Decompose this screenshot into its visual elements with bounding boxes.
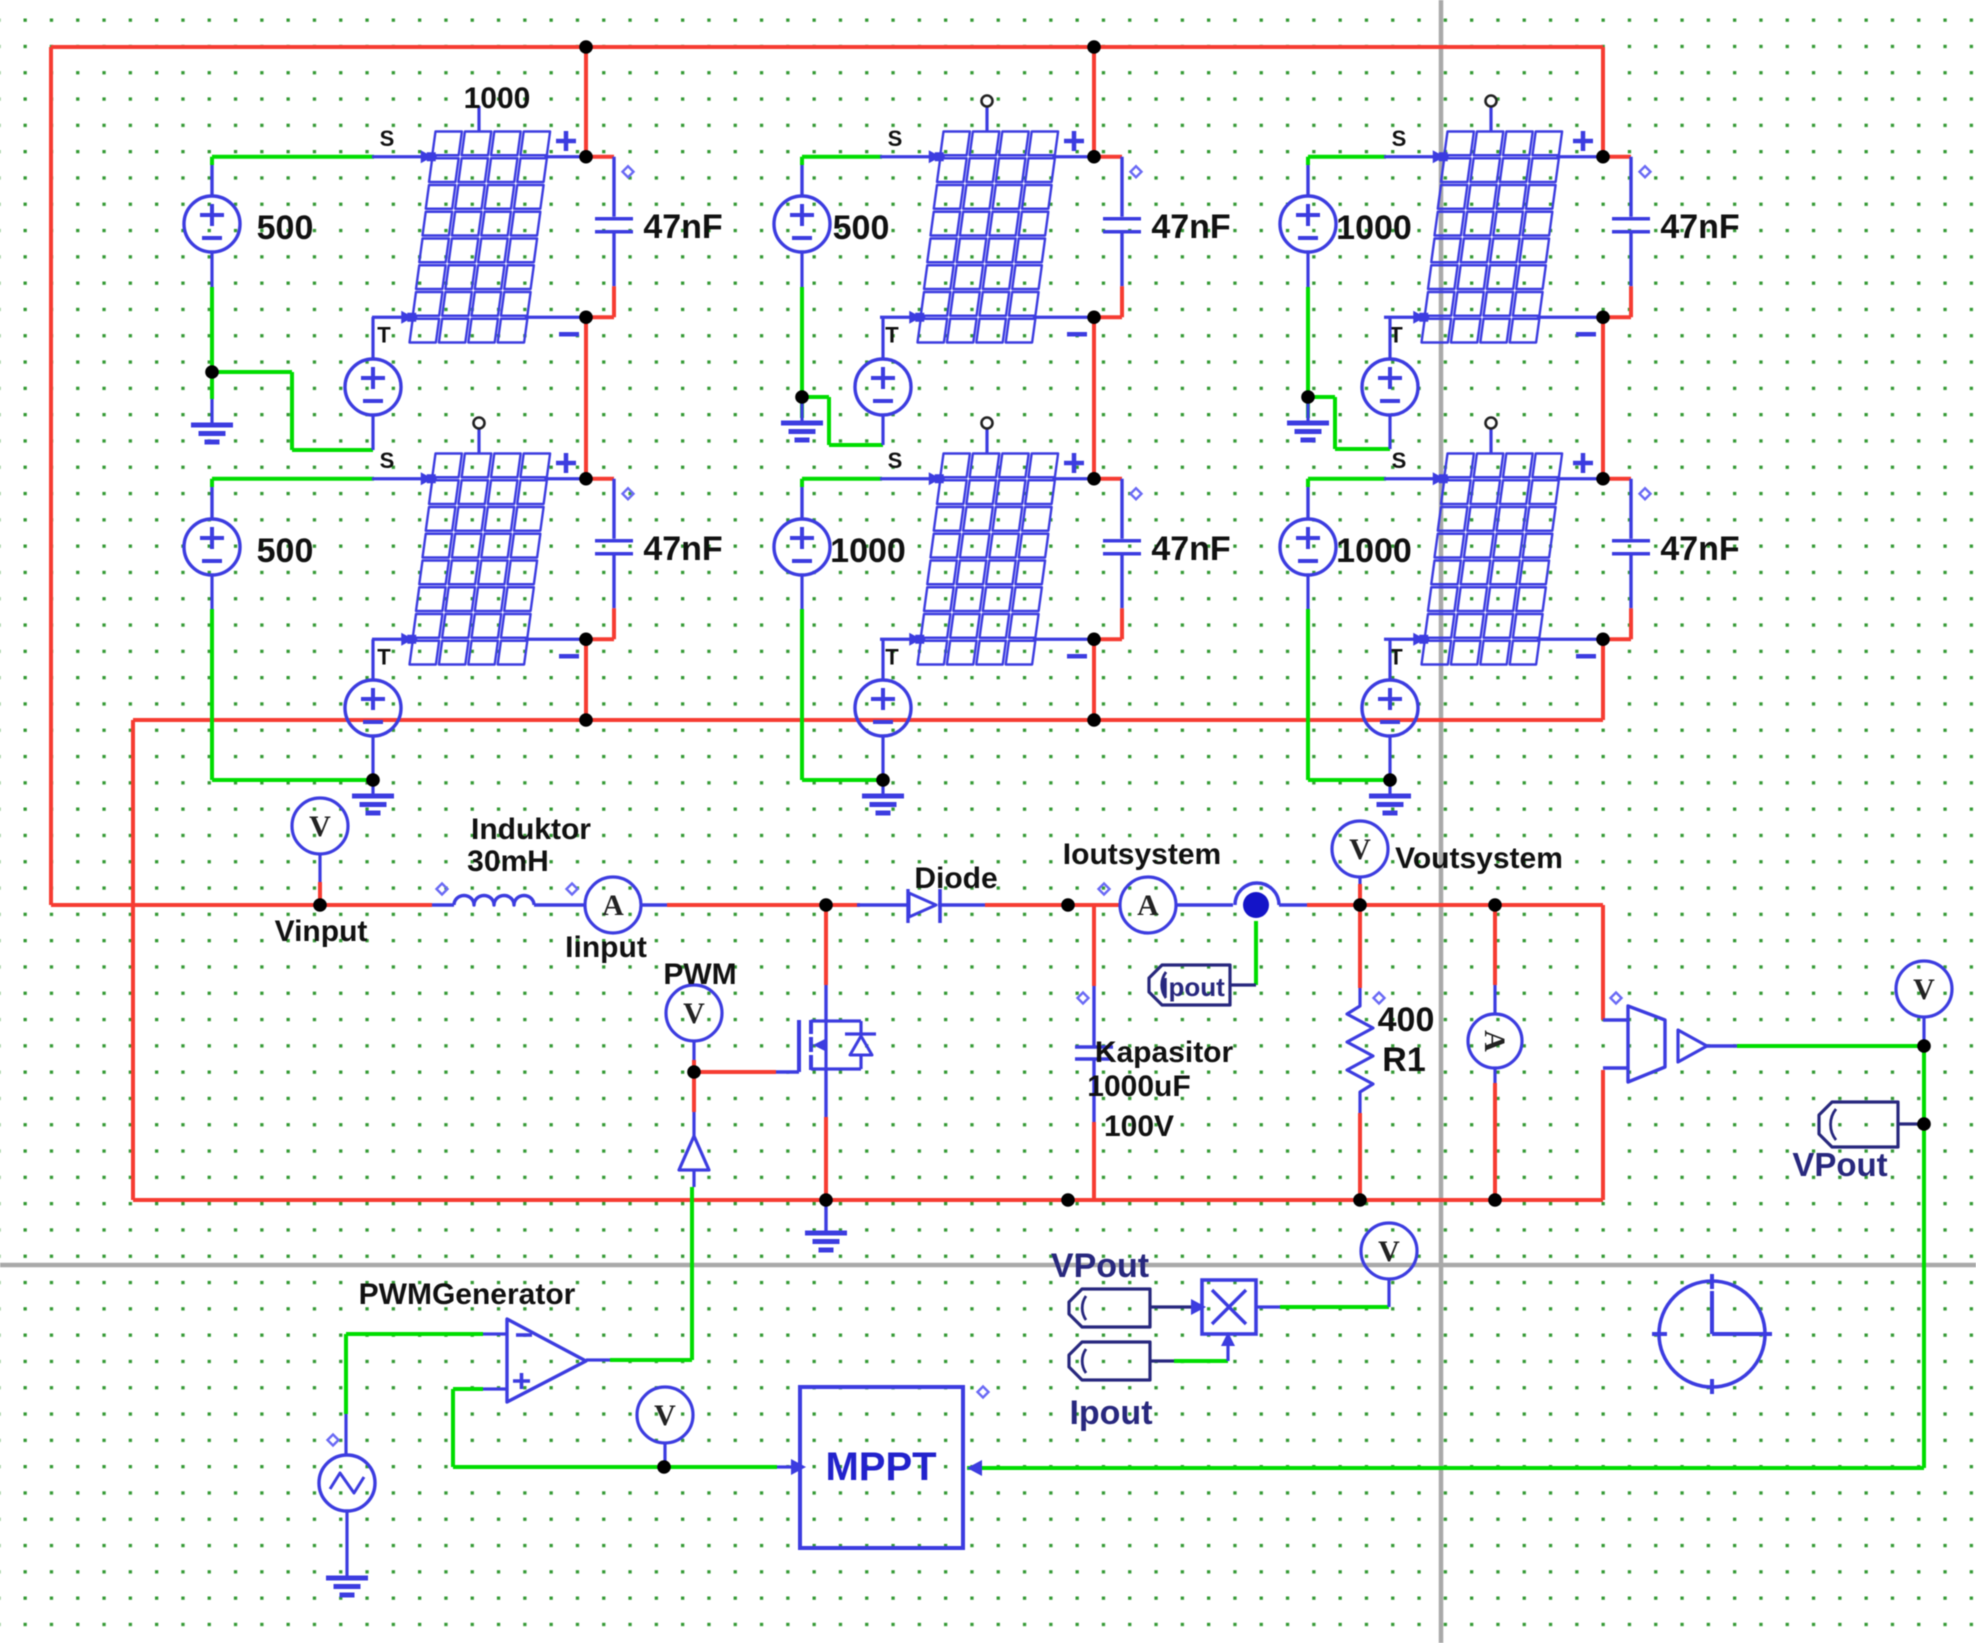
svg-text:1000: 1000 [830,532,906,570]
svg-text:V: V [1349,833,1371,866]
svg-text:500: 500 [257,532,314,570]
svg-text:1000: 1000 [1336,209,1412,247]
svg-text:VPout: VPout [1051,1247,1149,1285]
svg-text:1000uF: 1000uF [1087,1070,1190,1103]
svg-text:1000: 1000 [1336,532,1412,570]
svg-text:47nF: 47nF [643,208,722,246]
svg-text:S: S [888,126,903,151]
svg-text:V: V [683,997,705,1030]
svg-text:Voutsystem: Voutsystem [1395,842,1563,875]
svg-text:47nF: 47nF [1151,530,1230,568]
svg-text:Vinput: Vinput [275,915,368,948]
svg-text:A: A [602,889,624,922]
svg-text:30mH: 30mH [467,845,549,878]
svg-text:500: 500 [257,209,314,247]
svg-text:500: 500 [833,209,890,247]
svg-text:Ipout: Ipout [1069,1394,1152,1432]
svg-text:A: A [1137,889,1159,922]
svg-text:S: S [380,448,395,473]
svg-text:100V: 100V [1104,1110,1174,1143]
svg-text:V: V [654,1399,676,1432]
svg-text:R1: R1 [1382,1041,1425,1079]
svg-text:PWM: PWM [663,958,736,991]
svg-text:V: V [1913,973,1935,1006]
svg-text:A: A [1478,1030,1511,1052]
svg-text:Ioutsystem: Ioutsystem [1063,838,1221,871]
svg-text:400: 400 [1378,1001,1435,1039]
svg-text:V: V [1378,1235,1400,1268]
svg-text:S: S [888,448,903,473]
svg-text:Iinput: Iinput [565,931,647,964]
svg-text:47nF: 47nF [1660,208,1739,246]
svg-text:Induktor: Induktor [471,813,591,846]
svg-text:S: S [1392,448,1407,473]
svg-text:T: T [885,644,899,669]
svg-text:T: T [377,644,391,669]
svg-text:V: V [309,810,331,843]
svg-text:T: T [377,322,391,347]
svg-text:Ipout: Ipout [1161,972,1225,1002]
svg-text:1000: 1000 [464,82,531,115]
svg-text:PWMGenerator: PWMGenerator [359,1278,576,1311]
svg-text:T: T [885,322,899,347]
svg-text:47nF: 47nF [643,530,722,568]
svg-text:Diode: Diode [914,862,997,895]
svg-text:MPPT: MPPT [825,1445,936,1489]
svg-text:47nF: 47nF [1151,208,1230,246]
svg-text:S: S [380,126,395,151]
svg-text:47nF: 47nF [1660,530,1739,568]
svg-text:Kapasitor: Kapasitor [1095,1036,1234,1069]
svg-text:S: S [1392,126,1407,151]
svg-text:VPout: VPout [1792,1146,1887,1183]
